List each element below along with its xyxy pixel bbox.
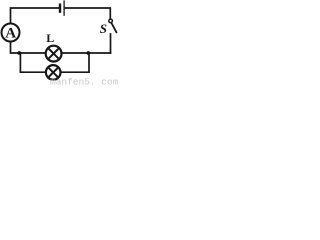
node junction left [17,51,21,55]
switch S pivot circle [109,19,113,23]
svg-text:S: S [100,21,107,36]
lamp L1 circle [46,46,62,62]
wire top rail right (battery to switch) [65,8,111,19]
battery cell: short thick plate (left) [59,5,61,12]
wire lamp L1 right lead to right rail [62,52,111,54]
svg-text:A: A [5,26,16,42]
lamp L2 circle [46,65,61,80]
wire left drop to second branch [20,53,45,72]
wire top rail left (ammeter to battery) [11,8,60,23]
wire switch bottom lead [110,34,112,53]
node junction right [86,51,90,55]
wire ammeter bottom lead [11,42,20,53]
svg-text:L: L [46,31,54,45]
battery cell: long thin plate (right) [63,1,65,15]
wire right drop to second branch [61,53,89,72]
ammeter A1 circle [2,24,20,42]
lamp L1 X diagonals [48,48,59,59]
lamp L2 X diagonals [48,67,58,77]
wire lamp L1 left lead [19,52,45,54]
switch S blade (open) [111,23,116,32]
svg-text:manfen5. com: manfen5. com [50,76,119,86]
